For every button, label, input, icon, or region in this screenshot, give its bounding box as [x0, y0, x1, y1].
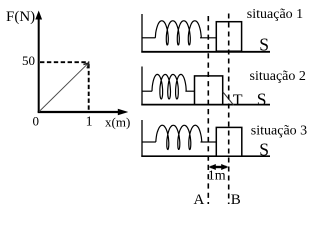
svg-text:situação 2: situação 2: [250, 69, 306, 84]
1m arrowhead right: [221, 164, 228, 170]
x-axis arrowhead: [118, 109, 128, 116]
svg-text:T: T: [233, 92, 243, 109]
situation 2: ground line: [141, 104, 270, 106]
svg-text:S: S: [259, 140, 269, 160]
situation 3: block S: [216, 127, 242, 156]
situation 1: block S: [216, 22, 241, 52]
situation 2: block S: [195, 76, 223, 105]
1m arrowhead left: [209, 164, 216, 170]
y-axis arrowhead: [35, 11, 42, 20]
situation 2: wall: [141, 67, 143, 106]
svg-text:1m: 1m: [208, 169, 226, 184]
situation 3: spring: [156, 125, 202, 149]
situation 2: spring lead-out wire: [185, 90, 194, 92]
situation 1: spring lead-in wire: [142, 37, 155, 39]
situation 1: wall: [141, 14, 143, 53]
y-axis F(N): [38, 17, 40, 113]
svg-text:50: 50: [22, 53, 35, 68]
situation 1: spring: [155, 21, 201, 45]
svg-text:1: 1: [86, 115, 93, 130]
dashed vertical at x=1: [88, 64, 90, 111]
dashed horizontal at F=50: [40, 61, 89, 63]
svg-text:situação 3: situação 3: [251, 124, 307, 139]
svg-text:situação 1: situação 1: [247, 7, 303, 22]
svg-text:x(m): x(m): [105, 115, 130, 130]
dashed vertical line A: [207, 16, 209, 204]
svg-text:0: 0: [33, 114, 40, 129]
situation 1: ground line: [141, 51, 270, 53]
svg-text:S: S: [257, 89, 267, 109]
svg-text:F(N): F(N): [6, 9, 35, 25]
situation 3: spring lead-in wire: [142, 141, 156, 143]
situation 3: wall: [141, 120, 143, 157]
x-axis x(m): [38, 111, 121, 113]
dashed vertical line B: [228, 14, 230, 205]
svg-text:A: A: [194, 192, 205, 208]
situation 2: spring lead-in wire: [142, 90, 152, 92]
diagonal F=50x line: [39, 64, 88, 112]
situation 2: latch T diagonal: [223, 92, 234, 106]
diagonal arrowhead: [83, 63, 88, 68]
situation 1: spring lead-out wire: [200, 37, 216, 39]
situation 2: spring (compressed): [152, 74, 186, 99]
svg-text:B: B: [231, 192, 241, 208]
1m double arrow: [211, 166, 227, 168]
svg-text:S: S: [259, 35, 269, 55]
situation 3: ground line: [141, 155, 270, 157]
situation 3: spring lead-out wire: [201, 141, 217, 143]
